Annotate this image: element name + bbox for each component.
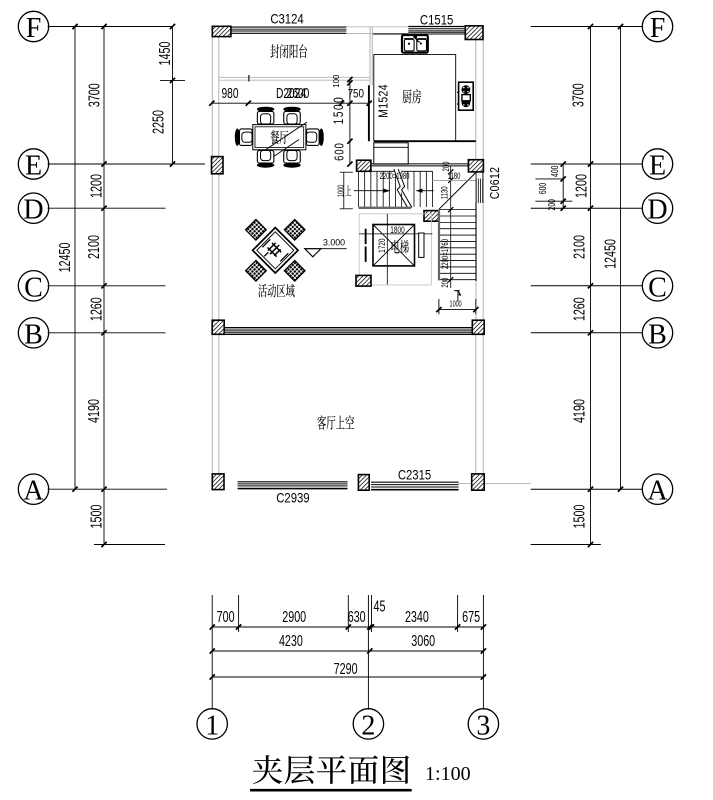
svg-text:1200: 1200 — [573, 174, 591, 198]
svg-text:400: 400 — [549, 165, 561, 177]
svg-text:1260: 1260 — [570, 297, 588, 321]
svg-text:630: 630 — [348, 608, 366, 626]
svg-text:45: 45 — [374, 597, 386, 615]
svg-text:4190: 4190 — [85, 399, 103, 423]
svg-text:E: E — [649, 151, 666, 182]
svg-text:C1515: C1515 — [420, 13, 453, 28]
svg-text:B: B — [24, 319, 43, 350]
svg-text:1130: 1130 — [439, 186, 450, 199]
svg-text:A: A — [23, 476, 44, 507]
svg-text:600: 600 — [537, 183, 549, 195]
svg-text:2: 2 — [361, 710, 375, 741]
svg-text:3.000: 3.000 — [323, 237, 345, 247]
svg-text:1180: 1180 — [448, 171, 461, 182]
svg-text:1500: 1500 — [87, 505, 105, 529]
svg-text:F: F — [26, 13, 42, 44]
svg-text:675: 675 — [462, 608, 480, 626]
svg-text:1260: 1260 — [87, 297, 105, 321]
svg-text:600: 600 — [333, 142, 347, 161]
svg-text:1450: 1450 — [156, 42, 174, 66]
svg-text:1500: 1500 — [330, 96, 346, 125]
svg-text:2200=1980: 2200=1980 — [380, 171, 410, 182]
svg-text:C: C — [648, 272, 667, 303]
svg-text:12450: 12450 — [56, 243, 74, 273]
svg-text:B: B — [648, 319, 667, 350]
svg-text:2900: 2900 — [282, 608, 306, 626]
svg-text:4230: 4230 — [279, 632, 303, 650]
svg-text:3700: 3700 — [85, 83, 103, 107]
svg-text:E: E — [25, 151, 42, 182]
svg-text:2600: 2600 — [287, 84, 310, 102]
svg-text:200: 200 — [440, 278, 451, 288]
svg-text:1:100: 1:100 — [425, 763, 471, 785]
svg-text:1720: 1720 — [377, 238, 387, 253]
svg-text:2100: 2100 — [570, 235, 588, 259]
svg-text:1500: 1500 — [570, 505, 588, 529]
svg-text:3: 3 — [476, 710, 490, 741]
svg-text:M1524: M1524 — [378, 84, 391, 118]
svg-text:D: D — [647, 195, 667, 226]
svg-text:C2939: C2939 — [276, 491, 309, 506]
svg-text:4190: 4190 — [570, 399, 588, 423]
svg-text:3700: 3700 — [569, 83, 587, 107]
svg-text:3060: 3060 — [411, 632, 435, 650]
svg-text:2200=1760: 2200=1760 — [440, 239, 451, 269]
svg-text:7290: 7290 — [334, 660, 358, 678]
svg-text:2250: 2250 — [149, 110, 167, 134]
svg-text:1200: 1200 — [88, 174, 106, 198]
svg-text:C3124: C3124 — [270, 12, 303, 27]
svg-text:100: 100 — [332, 74, 341, 88]
svg-text:1800: 1800 — [390, 225, 405, 235]
svg-text:200: 200 — [546, 199, 558, 211]
svg-text:12450: 12450 — [601, 239, 619, 269]
svg-text:2100: 2100 — [85, 235, 103, 259]
svg-text:1000: 1000 — [450, 300, 462, 308]
svg-text:A: A — [647, 476, 668, 507]
svg-text:C2315: C2315 — [398, 468, 431, 483]
svg-text:980: 980 — [221, 84, 238, 102]
svg-text:1000: 1000 — [338, 185, 346, 197]
svg-text:C0612: C0612 — [489, 167, 502, 200]
svg-text:700: 700 — [217, 608, 235, 626]
svg-text:2340: 2340 — [405, 608, 429, 626]
svg-text:1: 1 — [205, 710, 219, 741]
svg-text:F: F — [650, 13, 666, 44]
svg-text:D: D — [23, 195, 43, 226]
svg-text:C: C — [24, 272, 43, 303]
